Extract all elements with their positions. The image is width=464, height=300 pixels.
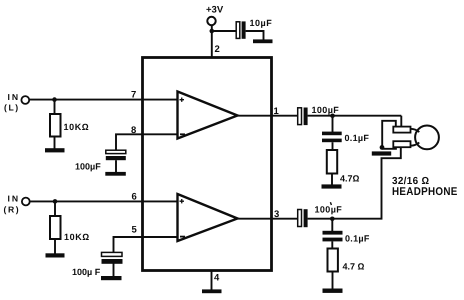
input terminal IN (L) <box>21 96 29 104</box>
capacitor C2 100µF <box>106 150 126 160</box>
wire R4 to ground <box>332 272 334 289</box>
node supply junction <box>210 29 215 34</box>
wire R1 to ground <box>54 137 56 149</box>
node R output junction <box>330 217 335 222</box>
svg-text:100µ F: 100µ F <box>72 267 101 277</box>
ground (jack sleeve) <box>372 151 391 155</box>
wire C1 to ground <box>246 31 264 40</box>
ground (C1) <box>253 39 273 43</box>
label IN (R) <box>4 194 21 215</box>
wire pin 3 to C6 <box>238 218 298 220</box>
wire pin 8 to C2 <box>116 134 178 150</box>
capacitor C6 100µF <box>298 209 308 227</box>
ground (R4) <box>323 289 343 293</box>
capacitor C4 100µF <box>298 108 308 126</box>
node L input junction <box>52 97 57 102</box>
svg-text:5: 5 <box>132 225 138 236</box>
wire pin 1 to C4 <box>238 115 298 117</box>
wire C7 to R4 <box>331 241 333 248</box>
node sleeve junction <box>380 145 385 150</box>
resistor R1 10KΩ <box>50 114 61 137</box>
op-amp A2 <box>178 194 238 241</box>
wire node to C5 <box>332 116 334 132</box>
svg-text:10KΩ: 10KΩ <box>64 232 90 242</box>
node R input junction <box>53 199 58 204</box>
label IN (L) <box>4 92 20 113</box>
svg-text:100µF: 100µF <box>75 162 101 172</box>
capacitor C7 0.1µF <box>323 231 343 242</box>
ground (R1) <box>45 148 65 152</box>
svg-text:10KΩ: 10KΩ <box>64 122 90 132</box>
resistor R4 4.7Ω <box>328 249 338 272</box>
wire node to C7 <box>331 219 333 231</box>
svg-text:4: 4 <box>214 273 220 284</box>
svg-text:IN: IN <box>8 194 21 204</box>
svg-text:(L): (L) <box>4 103 20 113</box>
wire node to R1 <box>54 100 56 114</box>
wire C3 to ground <box>113 263 115 276</box>
wire node to R2 <box>54 201 56 216</box>
input terminal IN (R) <box>22 198 30 206</box>
svg-text:0.1µF: 0.1µF <box>345 234 370 244</box>
svg-text:+3V: +3V <box>206 5 224 16</box>
wire pin 5 to C3 <box>114 237 178 252</box>
svg-text:7: 7 <box>131 90 136 101</box>
wire supply to C1 <box>212 30 236 32</box>
svg-text:6: 6 <box>132 192 137 203</box>
svg-text:10µF: 10µF <box>250 18 273 28</box>
wire C6 to jack ring <box>308 147 401 219</box>
svg-text:HEADPHONE: HEADPHONE <box>392 186 458 198</box>
wire R2 to ground <box>54 239 56 254</box>
resistor R2 10KΩ <box>50 216 61 239</box>
capacitor C1 10µF <box>236 21 245 38</box>
capacitor C3 100µF <box>102 252 123 263</box>
op-amp A1 <box>178 92 238 139</box>
wire +3V to pin 2 <box>211 25 213 57</box>
svg-text:100µF: 100µF <box>315 204 343 214</box>
svg-text:0.1µF: 0.1µF <box>345 133 370 143</box>
IC box U1 <box>143 58 272 271</box>
jack ring contact <box>393 141 410 147</box>
capacitor C5 0.1µF <box>322 132 342 143</box>
wire R3 to ground <box>331 174 333 185</box>
resistor R3 4.7Ω <box>327 150 337 174</box>
jack sleeve bracket <box>382 121 396 149</box>
svg-text:2: 2 <box>215 44 220 55</box>
wire C4 to jack tip <box>308 115 402 117</box>
svg-text:IN: IN <box>8 92 21 102</box>
wire IN L to op-amp A1 + <box>29 99 177 101</box>
ground (R2) <box>46 253 65 257</box>
ground (R3) <box>322 184 342 188</box>
power terminal +3V <box>207 17 215 25</box>
headphone plug body <box>415 125 439 149</box>
ground (pin 4) <box>202 289 222 293</box>
jack tip contact <box>393 127 410 133</box>
pin 4 wire <box>211 271 213 290</box>
wire IN R to op-amp A2 + <box>30 200 178 202</box>
wire C2 to ground <box>115 160 117 172</box>
ground (C3) <box>101 276 122 280</box>
wire jack tip drop <box>400 116 402 127</box>
svg-text:100µF: 100µF <box>312 105 340 115</box>
wire C5 to R3 <box>332 142 334 150</box>
scan tick artifact <box>330 202 331 205</box>
svg-text:4.7Ω: 4.7Ω <box>340 174 360 184</box>
svg-text:(R): (R) <box>4 205 21 215</box>
ground (C2) <box>105 172 126 176</box>
node L output junction <box>330 114 335 119</box>
svg-text:4.7 Ω: 4.7 Ω <box>343 262 365 272</box>
